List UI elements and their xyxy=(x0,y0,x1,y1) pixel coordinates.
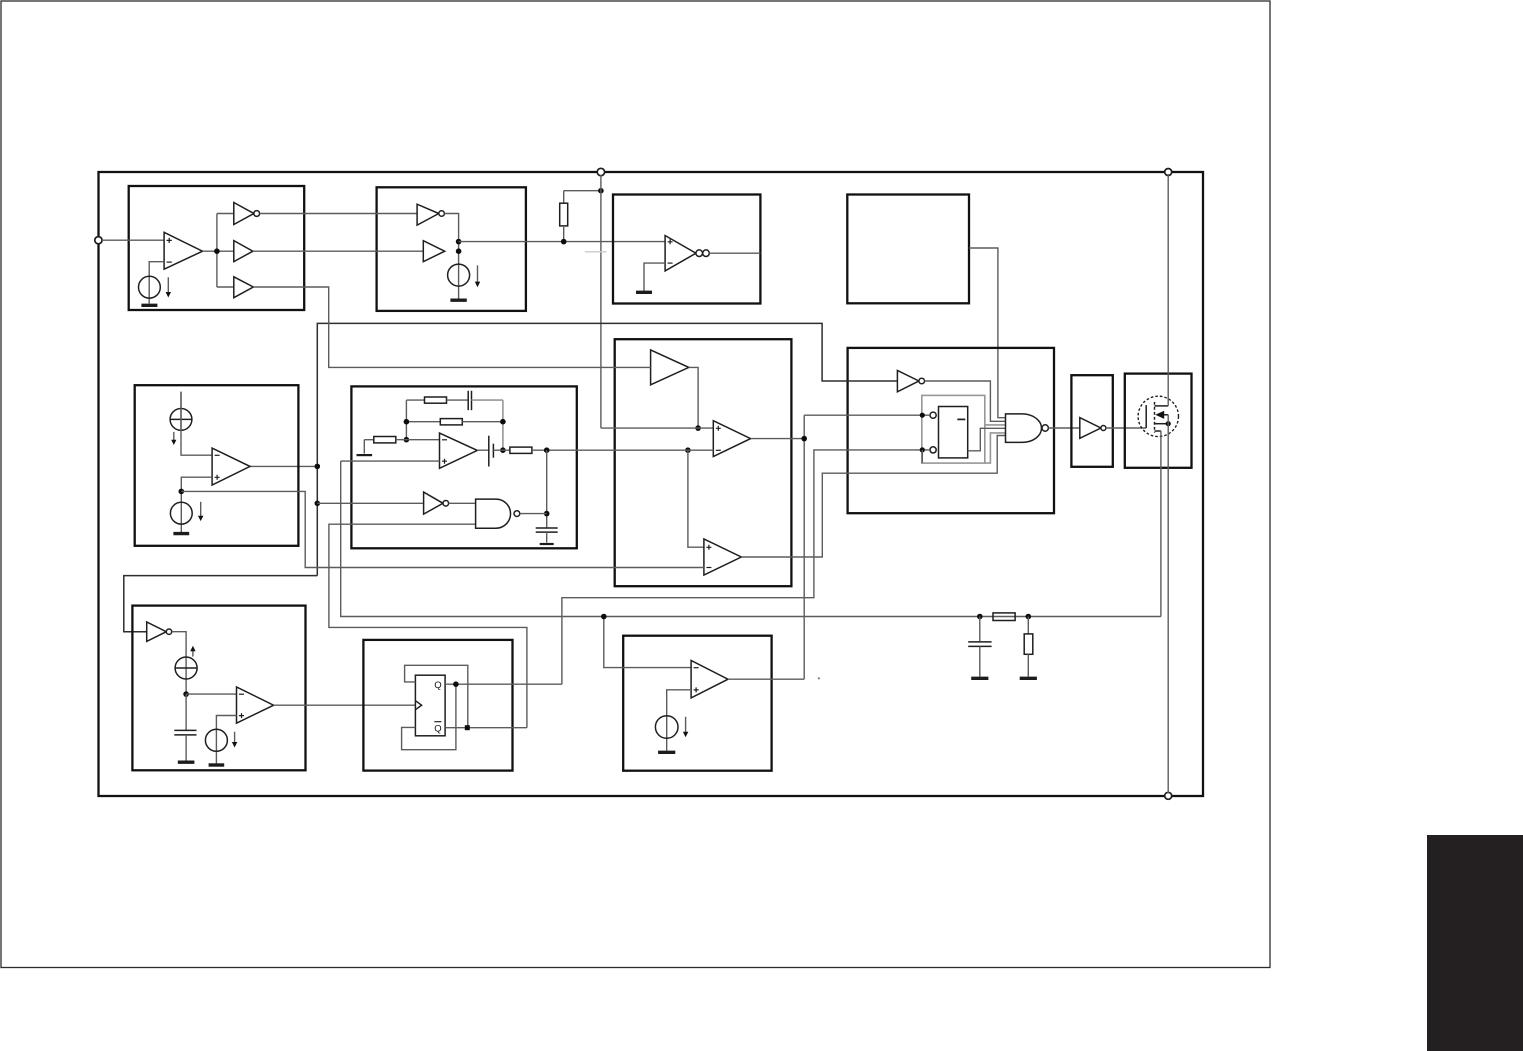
node junction U12 output left xyxy=(500,447,506,453)
wire R1 top to VIN rail xyxy=(564,190,601,192)
wire rail x317 vertical xyxy=(317,323,897,575)
block E comparator group box xyxy=(615,339,792,586)
latch minus mark xyxy=(957,418,965,420)
svg-text:Q: Q xyxy=(434,724,441,735)
arrow down below I3 xyxy=(171,432,176,445)
node junction rail x317 upper xyxy=(315,464,321,470)
node speck artifact xyxy=(818,677,820,679)
current source I5 xyxy=(175,657,197,679)
wire U3 output to buffer U6 xyxy=(253,250,423,252)
flip-flop FF1 body xyxy=(415,675,445,736)
wire G2 output to driver G3 xyxy=(1048,427,1079,429)
wire PWM to latch S xyxy=(804,414,930,416)
block L flip-flop box xyxy=(363,640,512,771)
block J error amp box xyxy=(351,386,576,548)
arrow down beside I6 xyxy=(232,732,237,748)
wire RC branch right vertical xyxy=(502,400,504,450)
ground below I4 xyxy=(173,532,189,535)
wire U7 inverting input to ground xyxy=(644,263,665,291)
node junction PWM xyxy=(801,436,807,442)
op-amp U1 xyxy=(164,232,202,269)
inverter G3 xyxy=(1080,418,1106,439)
inverter U14 xyxy=(147,622,172,641)
node junction at U1 output xyxy=(214,248,220,254)
wire stub above current source I3 xyxy=(180,392,182,431)
current source I7 xyxy=(655,716,678,739)
wire G3 output to MOSFET gate xyxy=(1106,427,1146,429)
wire Qbar output xyxy=(445,727,527,729)
node DRAIN pin top boundary xyxy=(1165,169,1172,176)
wire Q net to latch R input xyxy=(562,450,930,684)
wire U1 inverting input to current source xyxy=(149,262,164,304)
node junction VIN rail xyxy=(598,188,604,194)
transistor Q1 power MOSFET xyxy=(1138,396,1178,436)
block K timer box xyxy=(132,606,305,771)
wire J1 inverter input xyxy=(317,502,423,504)
wire I5 node to op-amp U15 minus xyxy=(186,693,236,695)
node junction I5 bottom xyxy=(183,691,189,697)
current source I1 xyxy=(139,276,161,298)
wire Q1 source to bottom pin xyxy=(1167,415,1169,794)
wire Q output xyxy=(445,683,562,685)
node junction FB cap xyxy=(977,614,983,620)
wire U8 output to U9 plus input xyxy=(689,367,698,428)
node junction COMP xyxy=(544,447,550,453)
node junction B rail lower xyxy=(456,248,462,254)
wire E2 output node to latch S input xyxy=(751,438,805,440)
wire FB to U12 plus input xyxy=(341,460,440,462)
latch input bubble S xyxy=(930,412,936,418)
wire feedback left vertical xyxy=(405,400,407,440)
block C comparator box xyxy=(613,195,760,304)
wire U7 output xyxy=(709,252,760,254)
current source I2 xyxy=(448,264,470,286)
svg-text:Q: Q xyxy=(434,680,441,691)
arrow down beside I1 xyxy=(166,277,171,297)
resistor R3 feedback mid xyxy=(406,419,503,425)
battery symbol B1 at U12 output xyxy=(477,436,510,467)
wire feedback FB line xyxy=(341,461,1161,616)
node junction R1 bottom xyxy=(561,239,567,245)
block B level shift box xyxy=(377,187,526,311)
wire Q1 sense to feedback line xyxy=(1160,431,1162,617)
arrow down beside I2 xyxy=(475,265,480,287)
wire U2 output to inverter U5 xyxy=(260,213,418,215)
node junction U11 plus xyxy=(179,489,185,495)
arrow down beside I4 xyxy=(198,502,203,521)
current source I4 xyxy=(170,502,192,524)
resistor R7 vertical with ground xyxy=(1020,617,1037,679)
capacitor C4 filter xyxy=(968,617,991,679)
node junction rail x317 lower xyxy=(315,501,321,507)
capacitor C3 timing xyxy=(174,694,196,762)
NAND gate G2 xyxy=(1006,414,1049,443)
wire FF1 lower feedback loop xyxy=(402,684,456,750)
op-amp U16 xyxy=(691,661,728,698)
buffer U8 xyxy=(651,350,689,385)
node SOURCE pin bottom boundary xyxy=(1165,792,1172,799)
wire Q1 drain to top pin xyxy=(1167,174,1169,406)
comparator U9 xyxy=(713,421,750,457)
node junction R3 right xyxy=(500,419,506,425)
wire U13 output to NAND G1 xyxy=(449,502,476,504)
op-amp U11 xyxy=(212,448,250,485)
wire faint ghost segment xyxy=(585,251,607,253)
block G driver box xyxy=(1071,375,1112,467)
node IN pin on left boundary xyxy=(95,237,102,244)
NAND gate G1 xyxy=(476,499,520,528)
ground below U7 xyxy=(636,291,652,294)
node junction R4 right xyxy=(404,437,410,443)
wire FB node to op-amp U16 minus xyxy=(604,617,691,668)
latch input bubble R xyxy=(930,447,936,453)
IC boundary box xyxy=(99,172,1204,796)
current source I3 xyxy=(170,409,192,431)
wire U16 plus branch xyxy=(667,690,691,751)
node junction B rail upper xyxy=(456,239,462,245)
comparator U7 xyxy=(665,236,696,271)
wire COMP node down to NAND J output xyxy=(546,450,548,527)
wire U15 output to flip-flop clock xyxy=(274,704,416,706)
wire U1 output bus xyxy=(203,214,234,288)
ground below I2 xyxy=(450,299,466,302)
capacitor C2 to ground xyxy=(536,528,558,544)
op-amp U15 xyxy=(237,687,274,723)
buffer U3 xyxy=(234,241,253,262)
resistor R5 output xyxy=(510,447,713,453)
wire gray box right edge to NAND input3 xyxy=(985,424,1006,426)
node dot Q1 source xyxy=(1166,421,1171,426)
wire F1 output to NAND G2 input2 xyxy=(925,381,1006,421)
wire U15 plus branch xyxy=(216,716,236,764)
wire block D output to NAND G2 input1 xyxy=(969,248,1006,418)
node junction Q xyxy=(453,681,459,687)
ground below I7 xyxy=(658,751,675,754)
buffer U4 xyxy=(234,277,254,298)
comparator U10 xyxy=(704,539,741,575)
wire U11 plus input branch xyxy=(181,477,212,532)
node junction NAND J output xyxy=(544,511,550,517)
wire U9 minus branch down to U10 plus xyxy=(688,450,704,547)
double bubble U7 output xyxy=(696,250,709,257)
op-amp U12 xyxy=(440,433,478,468)
buffer U6 xyxy=(423,241,444,262)
resistor R1 vertical xyxy=(560,191,568,242)
wire Qbar net to NAND G1 lower input xyxy=(329,524,527,728)
wire block I output rail across top xyxy=(250,465,317,467)
wire net PWM vertical xyxy=(803,415,805,679)
wire U5 output down to rail xyxy=(444,214,458,300)
block A oscillator box xyxy=(129,186,305,310)
latch cell inner box xyxy=(939,407,968,458)
node VIN pin top boundary xyxy=(597,168,604,175)
block D empty box xyxy=(847,195,969,304)
node junction U9 minus branch xyxy=(685,447,691,453)
inverter F1 xyxy=(897,371,924,392)
node junction FB resistor xyxy=(1026,614,1032,620)
ground below I6 xyxy=(209,763,225,766)
block M comparator box xyxy=(623,636,771,771)
current source I6 xyxy=(205,729,227,751)
wire latch R dot to gray box bottom xyxy=(921,450,923,463)
wire buffer U4 output to U8 input xyxy=(253,287,650,367)
node dot latch R edge xyxy=(920,447,925,452)
block I reference box xyxy=(135,385,299,546)
wire U11 plus node to E3 minus xyxy=(181,491,704,567)
node junction FB to U16 xyxy=(601,614,607,620)
inverter U5 xyxy=(417,204,444,225)
wire I3 to op-amp U11 minus xyxy=(181,392,212,456)
resistor R2 feedback top xyxy=(406,397,468,403)
node dot latch S edge xyxy=(920,413,925,418)
wire G1 output xyxy=(520,513,547,515)
wire rail x317 to inverter K xyxy=(124,576,317,632)
node junction U9 plus xyxy=(695,425,701,431)
wire gray box bottom to NAND input5 xyxy=(985,433,1006,463)
wire U14 output to current source I5 xyxy=(172,632,186,694)
inverter U2 xyxy=(234,203,260,225)
node junction Qbar xyxy=(465,725,470,730)
wire block B output to comparator U7 xyxy=(459,241,665,243)
resistor R4 input with ground xyxy=(357,437,440,456)
wire U16 output to PWM net xyxy=(728,678,804,680)
wire latch inner output to NAND input4 xyxy=(968,428,1006,451)
arrow down beside I7 xyxy=(683,717,688,737)
arrow up beside I5 xyxy=(190,646,195,657)
wire VIN rail vertical xyxy=(600,175,602,428)
latch cell outer gray box xyxy=(922,395,985,463)
wire input to op-amp U1 xyxy=(102,239,164,241)
wire VIN rail to U9 plus input xyxy=(601,427,713,429)
resistor R6 horizontal xyxy=(993,613,1015,621)
inverter U13 xyxy=(424,492,449,514)
wire U10 output to NAND input6 xyxy=(741,436,1005,558)
capacitor C1 series xyxy=(468,391,503,410)
block F logic box xyxy=(848,348,1054,513)
wire FF1 upper feedback loop xyxy=(405,665,468,727)
block H MOSFET box xyxy=(1125,374,1192,468)
ground below I1 xyxy=(141,304,157,307)
node junction R3 left xyxy=(404,419,410,425)
